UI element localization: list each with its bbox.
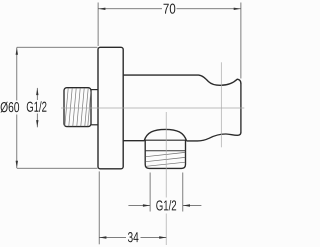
arrow G1/2 outlet right (183, 204, 190, 206)
dimension line D60 upper part (16, 48, 18, 101)
label G1/2 inlet (27, 101, 47, 112)
extension line left wall face for 70 (97, 3, 99, 47)
arrow 70 right (234, 8, 241, 10)
inlet male thread G1/2 body (64, 88, 91, 127)
arrow D60 up (16, 48, 18, 55)
centerline vertical holder axis (220, 62, 222, 147)
outlet dome (144, 129, 186, 140)
body and holder outline top (123, 75, 241, 85)
holder right edge (240, 83, 242, 133)
arrow G1/2 inlet up (36, 88, 38, 95)
arrow G1/2 outlet left (143, 204, 150, 206)
centerline horizontal body axis (61, 107, 244, 109)
arrow 70 left (98, 8, 105, 10)
extension line outlet thread right for G1/2 (182, 173, 184, 212)
extension line outlet thread left for G1/2 (149, 173, 151, 212)
label 70 (164, 4, 176, 14)
extension line right end for 70 (240, 3, 242, 79)
label D60 (1, 102, 20, 113)
dimension line G1/2 inlet upper part (36, 88, 38, 100)
arrow G1/2 inlet down (36, 120, 38, 127)
inlet collar bottom (91, 124, 99, 126)
inlet collar top (91, 89, 99, 91)
arrow 34 right (159, 236, 166, 238)
wall flange (98, 47, 123, 169)
dimension line G1/2 outlet right (183, 205, 202, 207)
body bottom left segment (123, 140, 144, 142)
dimension line 70 right part (177, 8, 241, 10)
arrow 34 left (99, 236, 106, 238)
extension line flange bottom for D60 (17, 167, 98, 169)
outlet thread diagonals (146, 152, 186, 166)
centerline vertical outlet axis upper (165, 112, 167, 198)
label 34 (128, 232, 139, 242)
dimension line 34 right part (141, 237, 167, 239)
arrow D60 down (16, 161, 18, 168)
label G1/2 outlet (156, 200, 176, 211)
outlet nut (145, 140, 185, 169)
dimension line 34 left part (99, 237, 126, 239)
extension line flange top for D60 (17, 46, 98, 48)
dimension line 70 left part (98, 8, 162, 10)
centerline vertical outlet axis lower (165, 214, 167, 246)
dimension line D60 lower part (16, 115, 18, 169)
outlet nut top line (144, 139, 186, 141)
dimension line G1/2 inlet lower part (36, 114, 38, 128)
outlet thread top line (145, 150, 185, 152)
dimension line G1/2 outlet left (128, 205, 150, 207)
inlet thread hatch (65, 88, 91, 126)
extension line wall face lower for 34 (98, 171, 100, 244)
body and holder outline bottom (187, 132, 241, 141)
